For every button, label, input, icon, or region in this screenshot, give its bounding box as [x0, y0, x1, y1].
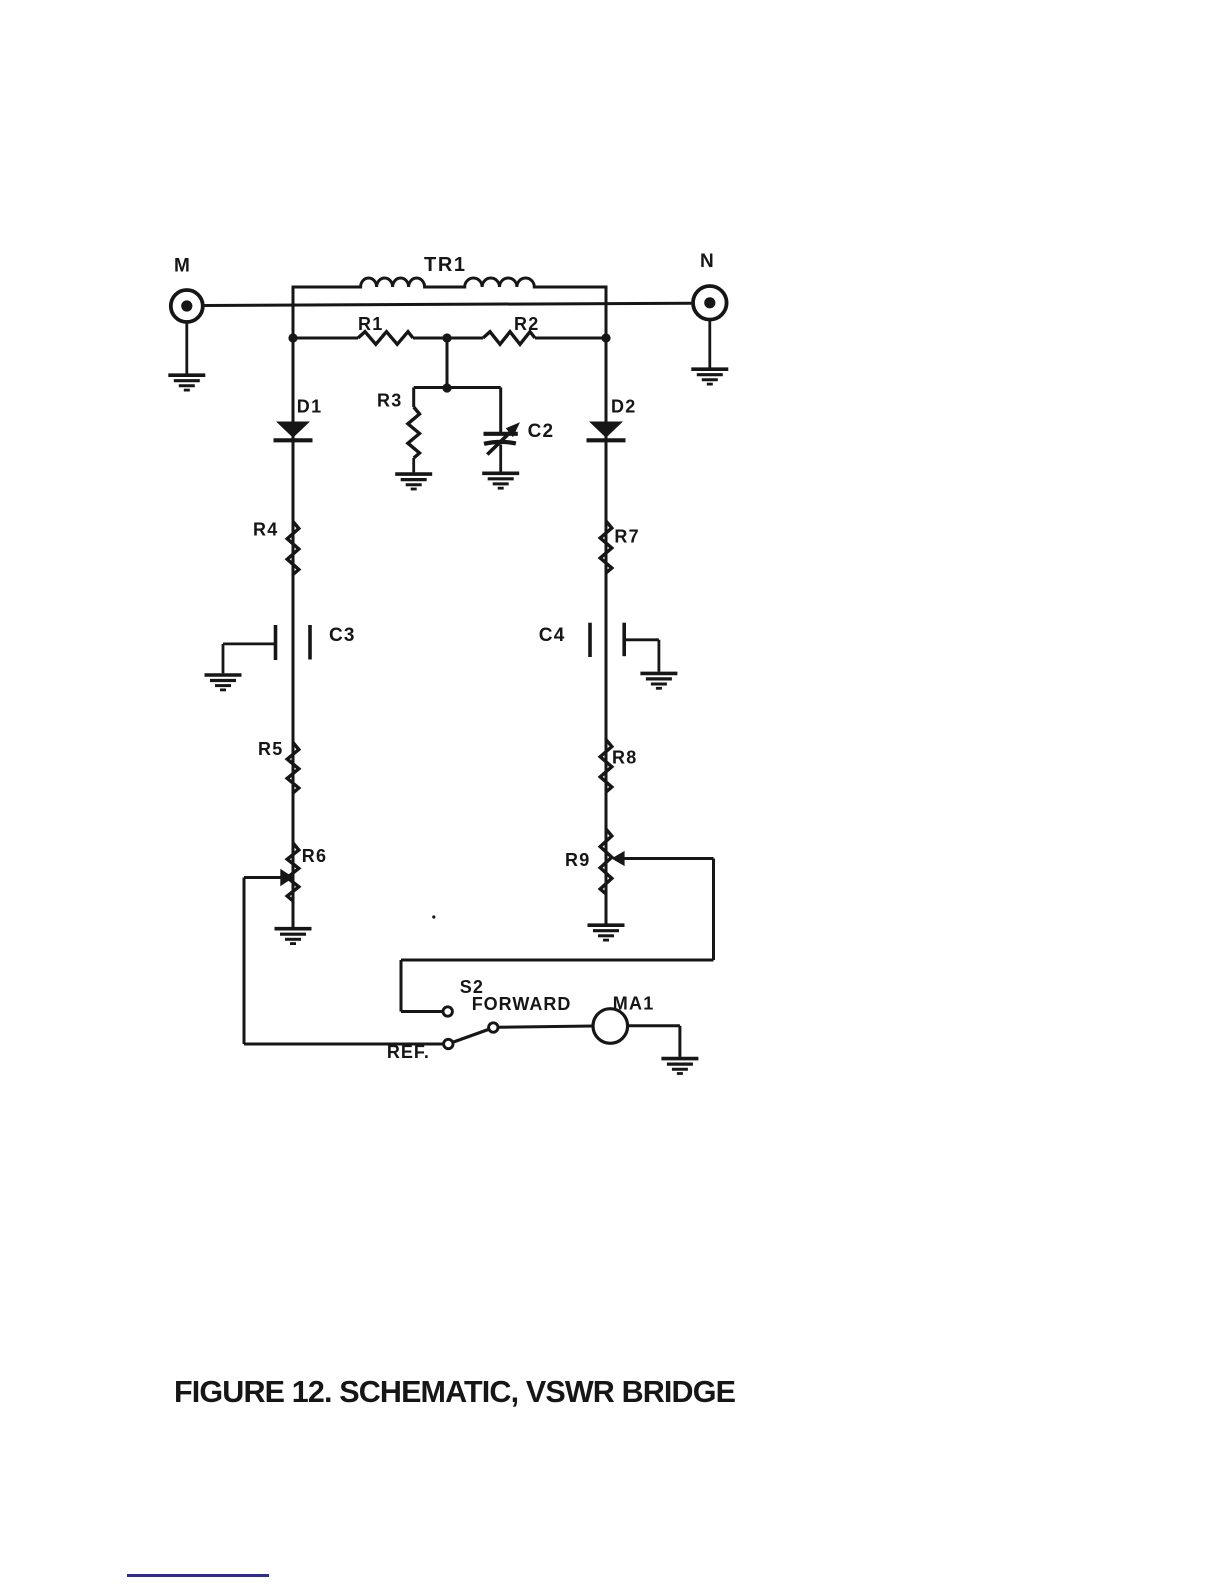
- svg-text:REF.: REF.: [387, 1042, 430, 1062]
- svg-text:R9: R9: [565, 850, 590, 870]
- svg-text:C2: C2: [528, 421, 555, 442]
- svg-text:R1: R1: [358, 314, 383, 334]
- svg-text:R7: R7: [614, 527, 639, 547]
- svg-text:R5: R5: [258, 739, 283, 759]
- svg-text:FORWARD: FORWARD: [472, 994, 572, 1014]
- svg-text:R4: R4: [253, 520, 278, 540]
- svg-text:N: N: [700, 251, 714, 272]
- svg-text:M: M: [174, 256, 190, 277]
- svg-text:FIGURE 12. SCHEMATIC, VSWR BRI: FIGURE 12. SCHEMATIC, VSWR BRIDGE: [174, 1375, 736, 1409]
- svg-text:D2: D2: [611, 397, 636, 417]
- svg-text:R6: R6: [302, 846, 327, 866]
- svg-text:TR1: TR1: [424, 254, 467, 276]
- svg-text:MA1: MA1: [613, 994, 655, 1014]
- svg-text:R2: R2: [514, 314, 539, 334]
- svg-text:D1: D1: [297, 397, 323, 417]
- svg-text:R3: R3: [377, 391, 402, 411]
- svg-text:C3: C3: [329, 625, 356, 646]
- svg-text:R8: R8: [612, 748, 637, 768]
- svg-text:C4: C4: [539, 625, 566, 646]
